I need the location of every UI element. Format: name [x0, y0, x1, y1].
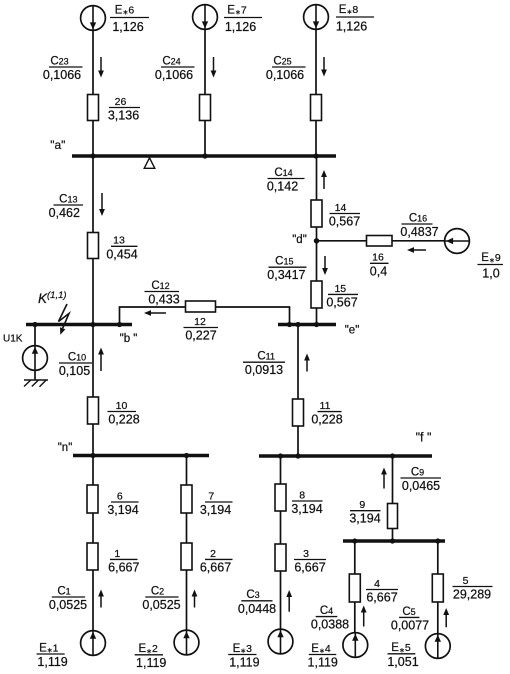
svg-text:C25: C25: [273, 55, 291, 67]
resistor R7: [181, 485, 192, 513]
svg-text:"n": "n": [58, 442, 73, 454]
svg-text:"d": "d": [292, 234, 307, 246]
svg-text:0,142: 0,142: [267, 180, 298, 194]
svg-text:E∗9: E∗9: [481, 252, 501, 264]
svg-text:26: 26: [115, 96, 127, 108]
svg-text:1,126: 1,126: [336, 19, 367, 33]
resistor R27 (E7 branch): [200, 95, 211, 121]
svg-text:0,1066: 0,1066: [266, 68, 304, 82]
resistor R15: [311, 281, 322, 308]
resistor R11: [293, 399, 304, 426]
svg-text:0,0448: 0,0448: [238, 602, 276, 616]
wire bus f to sub-bus: [392, 456, 394, 541]
label value 5 / 29,289: [453, 575, 493, 602]
svg-text:3: 3: [303, 548, 309, 560]
svg-text:0,454: 0,454: [106, 247, 137, 261]
svg-text:E∗5: E∗5: [391, 642, 411, 654]
wire bus f to E3: [280, 456, 282, 629]
label value 12 / 0,227: [184, 316, 219, 343]
node a-col1: [90, 153, 95, 158]
svg-text:0,105: 0,105: [59, 364, 90, 378]
resistor R28 (E8 branch): [311, 95, 322, 121]
bus a: [72, 154, 336, 157]
svg-text:0,227: 0,227: [185, 329, 216, 343]
source E5: [425, 634, 450, 659]
svg-text:C1: C1: [57, 585, 70, 597]
label C12 / 0,433: [145, 280, 180, 307]
svg-text:"a": "a": [50, 138, 65, 152]
label C13 / 0,462: [49, 193, 83, 220]
label C5 / 0,0077: [391, 606, 429, 633]
svg-text:9: 9: [359, 499, 365, 511]
label E*6 / 1,126: [110, 5, 149, 34]
label E*3 / 1,119: [228, 643, 259, 670]
source E2: [174, 630, 199, 655]
wire E7 to bus a: [204, 30, 206, 157]
arrow I E8: [321, 57, 327, 77]
node f-up: [295, 453, 300, 458]
svg-text:0,433: 0,433: [148, 293, 179, 307]
wire E8 to bus a: [315, 30, 317, 157]
svg-text:U1K: U1K: [3, 334, 23, 345]
node sub-1: [352, 538, 357, 543]
svg-text:1: 1: [114, 548, 120, 560]
label value 6 / 3,194: [107, 490, 138, 517]
label value 16 / 0,4: [370, 252, 389, 279]
label C25 / 0,1066: [266, 55, 306, 82]
label E*1 / 1,119: [37, 642, 68, 669]
resistor R5: [432, 574, 443, 602]
arrow I C4: [361, 606, 367, 627]
label value 1 / 6,667: [108, 548, 139, 575]
label value 11 / 0,228: [311, 400, 342, 427]
svg-text:0,462: 0,462: [49, 206, 80, 220]
svg-text:1,126: 1,126: [112, 20, 143, 34]
svg-text:E∗8: E∗8: [339, 4, 359, 16]
svg-text:1,119: 1,119: [136, 656, 166, 670]
svg-text:0,0525: 0,0525: [49, 598, 87, 612]
label value 7 / 3,194: [200, 490, 233, 517]
label E*2 / 1,119: [135, 643, 167, 670]
node b-col1: [90, 322, 95, 327]
svg-text:2: 2: [210, 548, 216, 560]
svg-text:E∗6: E∗6: [115, 5, 135, 17]
label value 14 / 0,567: [329, 202, 360, 229]
node b-stub: [117, 322, 122, 327]
svg-text:6,667: 6,667: [108, 560, 139, 574]
svg-text:0,4837: 0,4837: [400, 225, 438, 239]
svg-text:C14: C14: [274, 167, 292, 179]
svg-text:0,0525: 0,0525: [142, 598, 180, 612]
svg-text:0,0913: 0,0913: [245, 363, 283, 377]
svg-text:0,228: 0,228: [108, 413, 139, 427]
fault bolt K(1,1): [59, 304, 70, 335]
label E*4 / 1,119: [308, 643, 338, 670]
svg-text:0,567: 0,567: [326, 295, 357, 309]
svg-text:7: 7: [208, 490, 214, 502]
label C2 / 0,0525: [142, 585, 180, 612]
svg-text:E∗2: E∗2: [139, 643, 159, 655]
svg-text:1,119: 1,119: [308, 656, 338, 670]
source U1K: [23, 346, 48, 371]
label E*8 / 1,126: [336, 4, 374, 33]
arrow I C11: [304, 354, 310, 372]
label C15 / 0,3417: [267, 256, 306, 283]
resistor R13: [88, 233, 99, 259]
label value 13 / 0,454: [106, 235, 137, 262]
svg-text:"e": "e": [345, 325, 360, 337]
label value 2 / 6,667: [200, 548, 233, 575]
label C9 / 0,0465: [401, 466, 442, 493]
arrow I C9: [381, 468, 387, 489]
source E7: [193, 5, 218, 30]
wire node d to E9: [317, 240, 445, 242]
resistor R1: [87, 543, 98, 570]
svg-text:4: 4: [374, 578, 380, 590]
svg-text:29,289: 29,289: [453, 588, 491, 602]
bus unnamed below f: [343, 539, 445, 542]
wire sub-bus to E5: [437, 541, 439, 634]
svg-text:0,1066: 0,1066: [155, 68, 193, 82]
label E*9 / 1,0: [478, 252, 504, 281]
node d: [314, 238, 319, 243]
svg-text:10: 10: [116, 400, 128, 412]
label value 9 / 3,194: [349, 499, 380, 526]
transformer winding symbol (delta): [144, 158, 155, 169]
svg-text:E∗7: E∗7: [227, 5, 247, 17]
arrow I C14: [321, 170, 327, 189]
svg-text:16: 16: [372, 252, 384, 264]
svg-text:8: 8: [299, 489, 305, 501]
svg-text:6,667: 6,667: [294, 561, 325, 575]
svg-text:0,0465: 0,0465: [402, 479, 440, 493]
svg-text:C15: C15: [275, 256, 293, 268]
ground: [24, 380, 48, 387]
svg-text:K(1,1): K(1,1): [38, 290, 67, 306]
resistor R26: [88, 95, 99, 121]
arrow I C12: [144, 310, 166, 316]
wire bus e to bus f: [297, 325, 299, 457]
arrow I C15: [322, 256, 328, 275]
svg-text:3,194: 3,194: [291, 502, 322, 516]
svg-text:6,667: 6,667: [366, 591, 397, 605]
resistor R14: [311, 200, 322, 227]
label value 4 / 6,667: [366, 578, 398, 605]
svg-text:1,119: 1,119: [37, 655, 67, 669]
resistor R10: [88, 397, 99, 424]
svg-text:E∗1: E∗1: [39, 642, 59, 654]
svg-text:13: 13: [113, 235, 125, 247]
svg-text:3,194: 3,194: [107, 503, 138, 517]
svg-text:1,0: 1,0: [482, 267, 499, 281]
svg-text:14: 14: [335, 202, 347, 214]
wire bus n to E1: [92, 456, 94, 631]
svg-text:12: 12: [194, 316, 206, 328]
node n-col1: [90, 453, 95, 458]
wire bus b stub up: [119, 307, 121, 325]
svg-text:5: 5: [463, 575, 469, 587]
node e-stub: [287, 322, 292, 327]
resistor R16: [367, 236, 393, 247]
svg-text:C9: C9: [411, 466, 424, 478]
node a-col2: [202, 153, 207, 158]
bus b: [26, 323, 132, 326]
label value 3 / 6,667: [294, 548, 326, 575]
wire bus b to bus n: [92, 325, 94, 456]
svg-text:3,194: 3,194: [349, 512, 380, 526]
svg-text:1,126: 1,126: [225, 20, 256, 34]
svg-text:0,0077: 0,0077: [391, 618, 429, 632]
svg-text:3,194: 3,194: [200, 503, 231, 517]
arrow I C1: [98, 590, 104, 608]
label E*7 / 1,126: [224, 5, 262, 34]
arrow I C5: [443, 608, 449, 627]
label C1 / 0,0525: [49, 585, 87, 612]
arrow I C3: [286, 590, 292, 612]
svg-text:C16: C16: [409, 212, 427, 224]
label C14 / 0,142: [267, 167, 305, 194]
svg-text:C3: C3: [246, 589, 259, 601]
wire bus a to bus b: [92, 156, 94, 325]
source E4: [343, 633, 368, 658]
bus f: [259, 454, 432, 457]
resistor R12: [186, 301, 216, 312]
label C24 / 0,1066: [155, 55, 195, 82]
wire bus n to E2: [186, 456, 188, 631]
resistor R9: [388, 504, 398, 529]
label C4 / 0,0388: [311, 605, 349, 632]
svg-text:E∗4: E∗4: [311, 643, 331, 655]
node f-col1: [278, 453, 283, 458]
wire node d to bus e: [316, 241, 318, 325]
label C10 / 0,105: [59, 351, 92, 378]
node n-col2: [184, 453, 189, 458]
node a-col3: [313, 153, 318, 158]
node e-down: [295, 322, 300, 327]
label value 10 / 0,228: [108, 400, 140, 427]
svg-text:E∗3: E∗3: [233, 643, 253, 655]
svg-text:C10: C10: [68, 351, 86, 363]
label C16 / 0,4837: [400, 212, 438, 239]
svg-text:C5: C5: [402, 606, 415, 618]
svg-text:"f ": "f ": [416, 431, 432, 445]
arrow I C16: [407, 247, 426, 253]
node f-right: [390, 453, 395, 458]
label C23 / 0,1066: [43, 55, 83, 82]
wire E6 to bus a: [92, 31, 94, 157]
wire bus a to node d: [316, 156, 318, 241]
svg-text:0,228: 0,228: [311, 413, 342, 427]
svg-text:C12: C12: [151, 280, 169, 292]
svg-text:0,0388: 0,0388: [311, 618, 349, 632]
node sub-2: [390, 538, 395, 543]
label C3 / 0,0448: [238, 589, 276, 616]
svg-text:C23: C23: [50, 55, 68, 67]
arrow I C2: [192, 590, 198, 608]
svg-text:15: 15: [334, 283, 346, 295]
svg-text:0,567: 0,567: [329, 215, 360, 229]
svg-text:3,136: 3,136: [108, 109, 139, 123]
svg-text:C24: C24: [162, 55, 180, 67]
wire sub-bus to E4: [354, 541, 356, 633]
node e-col3: [314, 322, 319, 327]
svg-text:0,4: 0,4: [370, 264, 387, 278]
svg-text:"b ": "b ": [120, 333, 138, 345]
svg-text:C13: C13: [59, 193, 77, 205]
arrow I C13: [99, 193, 105, 216]
source E3: [268, 629, 293, 654]
svg-text:6,667: 6,667: [200, 560, 231, 574]
resistor R4: [349, 574, 360, 602]
svg-text:C11: C11: [257, 351, 275, 363]
resistor R6: [87, 485, 98, 513]
svg-text:0,3417: 0,3417: [267, 268, 305, 282]
label value 26 / 3,136: [108, 96, 140, 123]
svg-text:6: 6: [117, 490, 123, 502]
source E9: [445, 229, 470, 254]
node b-U1K: [32, 322, 37, 327]
svg-text:C2: C2: [151, 585, 164, 597]
bus e: [278, 323, 336, 326]
resistor R2: [181, 543, 192, 570]
arrow I C10: [98, 348, 104, 372]
label value 8 / 3,194: [291, 489, 322, 516]
arrow I E6: [98, 57, 104, 78]
source E6: [81, 6, 106, 31]
wire bus e stub up: [289, 307, 291, 325]
wire bus b to U1K source: [34, 325, 36, 346]
wire U1K source to ground: [34, 370, 36, 380]
svg-text:1,051: 1,051: [387, 655, 418, 669]
svg-text:C4: C4: [320, 605, 333, 617]
resistor R8: [275, 484, 286, 511]
svg-text:1,119: 1,119: [229, 656, 259, 670]
label C11 / 0,0913: [243, 351, 285, 378]
svg-text:0,1066: 0,1066: [43, 68, 81, 82]
svg-text:11: 11: [320, 400, 331, 412]
node sub-3: [435, 538, 440, 543]
arrow I E7: [211, 57, 217, 78]
source E1: [81, 631, 106, 656]
source E8: [304, 5, 329, 30]
label E*5 / 1,051: [387, 642, 418, 669]
label value 15 / 0,567: [326, 283, 358, 310]
wire branch b-e horizontal: [119, 306, 291, 308]
resistor R3: [275, 544, 286, 571]
bus n: [73, 454, 209, 457]
